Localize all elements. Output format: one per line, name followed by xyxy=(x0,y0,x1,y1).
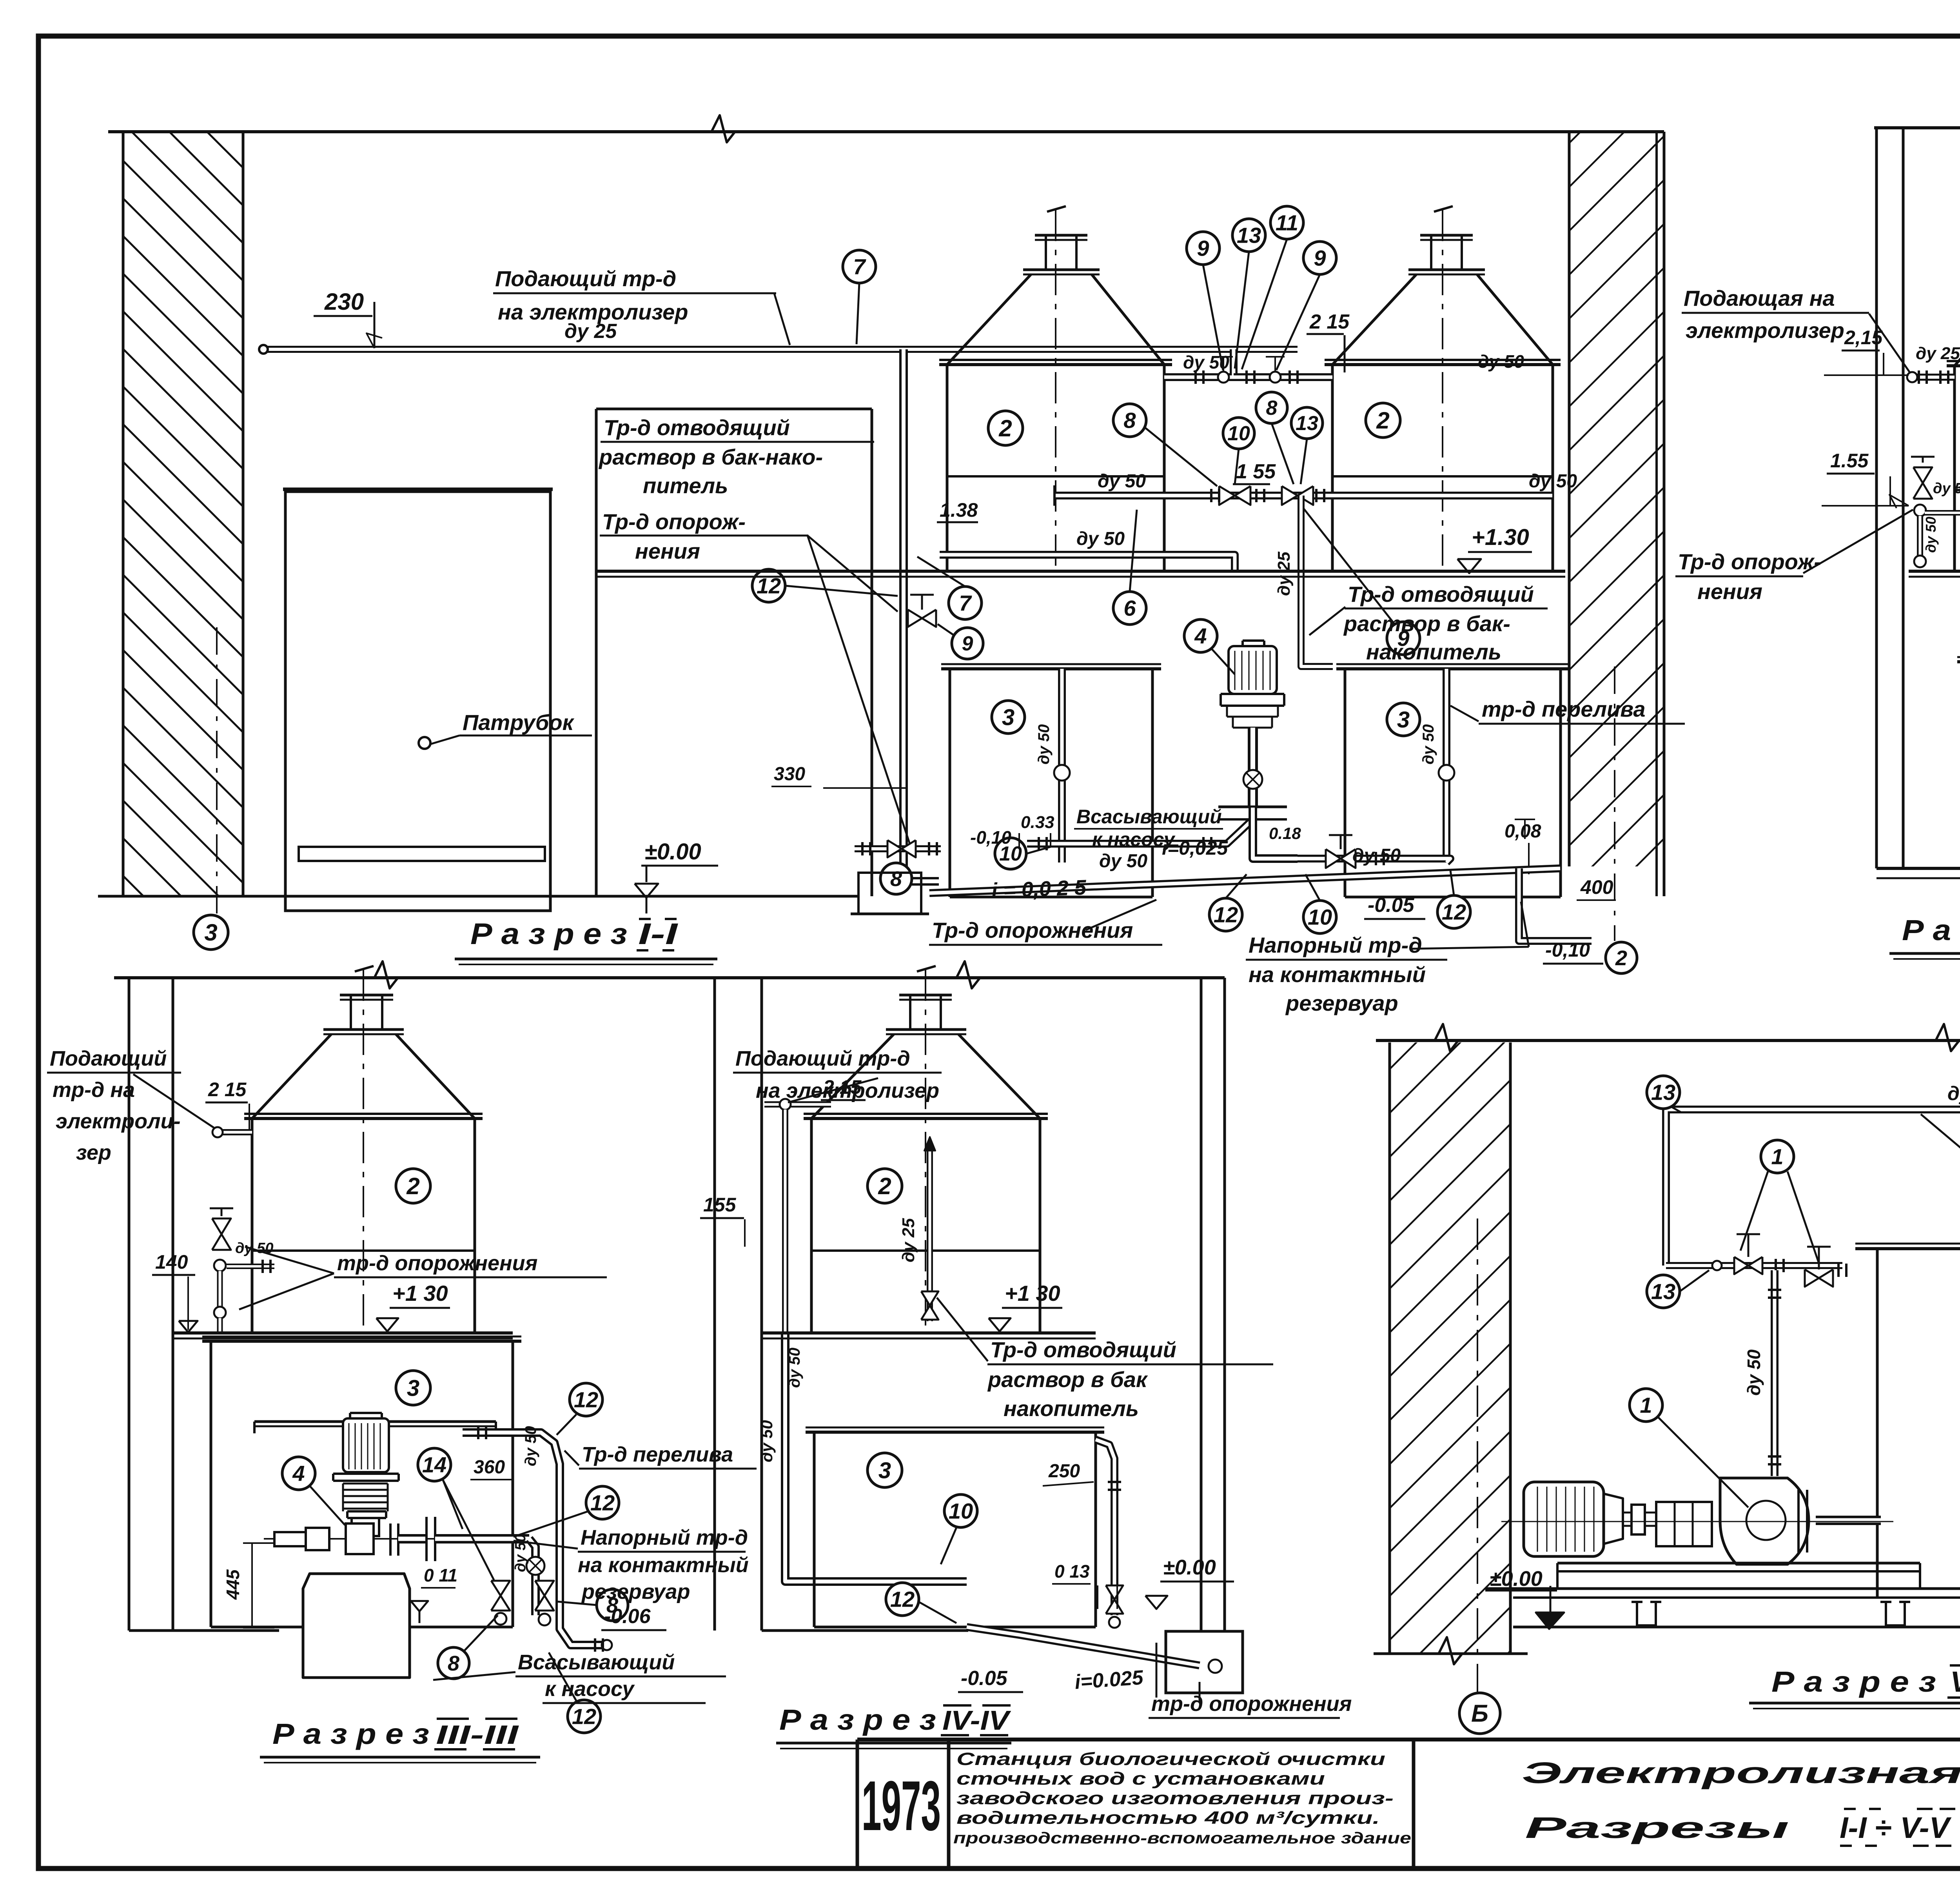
svg-text:ду 50: ду 50 xyxy=(1098,471,1146,492)
svg-text:0,08: 0,08 xyxy=(1504,821,1541,842)
svg-text:±0.00: ±0.00 xyxy=(644,839,701,864)
svg-text:Р а з р е з: Р а з р е з xyxy=(470,917,627,951)
svg-text:13: 13 xyxy=(1651,1080,1675,1105)
svg-text:12: 12 xyxy=(574,1387,598,1412)
svg-text:ду 50: ду 50 xyxy=(1183,352,1229,372)
svg-text:6: 6 xyxy=(1123,596,1136,621)
svg-text:4: 4 xyxy=(1194,624,1207,648)
svg-text:ду 50: ду 50 xyxy=(1744,1349,1764,1396)
svg-text:3: 3 xyxy=(204,919,217,946)
svg-text:электроли-: электроли- xyxy=(56,1109,181,1133)
svg-text:+1 30: +1 30 xyxy=(1005,1281,1060,1306)
svg-text:I-I: I-I xyxy=(638,917,679,951)
svg-text:12: 12 xyxy=(1214,902,1238,927)
svg-text:1973: 1973 xyxy=(862,1767,941,1845)
svg-text:9: 9 xyxy=(1314,246,1326,271)
svg-text:ду 50: ду 50 xyxy=(1933,480,1960,497)
svg-text:1 55: 1 55 xyxy=(1236,460,1276,483)
svg-text:-0,10: -0,10 xyxy=(970,827,1011,848)
svg-text:10: 10 xyxy=(949,1499,973,1523)
svg-text:на электролизер: на электролизер xyxy=(756,1079,939,1102)
svg-text:Всасывающий: Всасывающий xyxy=(518,1651,675,1674)
svg-text:8: 8 xyxy=(1123,408,1136,433)
svg-text:ду 25: ду 25 xyxy=(1916,344,1960,363)
svg-text:2: 2 xyxy=(998,415,1012,441)
svg-text:ду 25: ду 25 xyxy=(1274,552,1294,596)
svg-text:ду 50: ду 50 xyxy=(1923,517,1939,553)
svg-text:-0.06: -0.06 xyxy=(604,1605,651,1628)
svg-text:13: 13 xyxy=(1296,412,1318,435)
svg-text:-0.05: -0.05 xyxy=(1368,894,1415,917)
svg-text:накопитель: накопитель xyxy=(1004,1396,1139,1421)
svg-text:Подающая на: Подающая на xyxy=(1684,286,1835,311)
svg-text:8: 8 xyxy=(448,1652,459,1675)
svg-text:Тр-д опорож-: Тр-д опорож- xyxy=(1678,549,1821,574)
svg-text:Всасывающий: Всасывающий xyxy=(1076,806,1222,828)
svg-text:400: 400 xyxy=(1580,876,1613,898)
svg-text:ду 25: ду 25 xyxy=(1947,1082,1960,1104)
svg-text:Тр-д опорож-: Тр-д опорож- xyxy=(602,509,746,534)
svg-text:3: 3 xyxy=(407,1375,419,1401)
svg-text:155: 155 xyxy=(703,1194,737,1216)
svg-text:заводского изготовления произ-: заводского изготовления произ- xyxy=(956,1788,1394,1808)
svg-text:ду 50: ду 50 xyxy=(512,1534,529,1572)
svg-text:1.38: 1.38 xyxy=(940,499,978,521)
svg-text:Тр-д отводящий: Тр-д отводящий xyxy=(1348,582,1534,606)
svg-text:7: 7 xyxy=(959,591,972,616)
svg-text:тр-д опорожнения: тр-д опорожнения xyxy=(1151,1692,1352,1716)
svg-text:330: 330 xyxy=(774,764,805,784)
svg-text:Р а з р е з: Р а з р е з xyxy=(1902,914,1960,946)
svg-text:230: 230 xyxy=(324,289,364,315)
svg-text:Подающий: Подающий xyxy=(50,1047,167,1070)
svg-text:V-V: V-V xyxy=(1950,1665,1960,1698)
svg-text:2,15: 2,15 xyxy=(1844,327,1883,349)
svg-text:1: 1 xyxy=(1771,1144,1783,1169)
svg-text:0.33: 0.33 xyxy=(1021,813,1054,832)
svg-text:питель: питель xyxy=(643,473,728,498)
svg-text:2 15: 2 15 xyxy=(208,1079,247,1100)
svg-text:Тр-д отводящий: Тр-д отводящий xyxy=(990,1337,1176,1362)
svg-text:Р а з р е з: Р а з р е з xyxy=(779,1703,936,1736)
svg-text:i = 0,0 2 5: i = 0,0 2 5 xyxy=(991,876,1087,902)
svg-text:Р а з р е з: Р а з р е з xyxy=(272,1718,429,1750)
svg-text:ду 50: ду 50 xyxy=(1035,724,1053,764)
svg-text:i=0,025: i=0,025 xyxy=(1162,837,1228,859)
svg-text:0 13: 0 13 xyxy=(1054,1561,1090,1582)
svg-text:тр-д опорожнения: тр-д опорожнения xyxy=(337,1251,537,1275)
svg-text:12: 12 xyxy=(590,1491,615,1515)
svg-text:140: 140 xyxy=(155,1251,188,1273)
svg-text:Б: Б xyxy=(1471,1700,1488,1727)
svg-text:0.18: 0.18 xyxy=(1269,824,1301,843)
svg-text:-0.05: -0.05 xyxy=(961,1667,1008,1690)
svg-text:12: 12 xyxy=(1442,900,1466,924)
svg-text:Станция биологической очистки: Станция биологической очистки xyxy=(956,1749,1385,1769)
svg-text:2: 2 xyxy=(1376,407,1389,434)
svg-text:IV-IV: IV-IV xyxy=(942,1705,1011,1736)
svg-text:9: 9 xyxy=(962,632,973,655)
svg-text:раствор в бак-: раствор в бак- xyxy=(1343,611,1510,636)
svg-text:250: 250 xyxy=(1048,1461,1080,1482)
svg-text:водительностью 400 м³/сутки.: водительностью 400 м³/сутки. xyxy=(956,1808,1380,1828)
svg-text:0 11: 0 11 xyxy=(424,1565,457,1585)
svg-text:электролизер: электролизер xyxy=(1686,318,1844,343)
svg-text:445: 445 xyxy=(223,1569,243,1600)
svg-text:7: 7 xyxy=(853,254,866,279)
svg-text:9: 9 xyxy=(1197,236,1209,261)
svg-text:накопитель: накопитель xyxy=(1366,639,1501,664)
svg-text:Подающий тр-д: Подающий тр-д xyxy=(735,1047,910,1070)
svg-text:2: 2 xyxy=(406,1173,419,1199)
svg-text:8: 8 xyxy=(1266,397,1278,419)
svg-text:2: 2 xyxy=(1615,946,1627,970)
svg-text:тр-д на: тр-д на xyxy=(53,1078,135,1102)
svg-text:на контактный: на контактный xyxy=(578,1553,749,1577)
svg-text:Р а з р е з: Р а з р е з xyxy=(1771,1665,1936,1698)
svg-text:10: 10 xyxy=(1227,422,1250,445)
svg-text:360: 360 xyxy=(474,1457,505,1478)
svg-text:+1 30: +1 30 xyxy=(392,1281,448,1306)
svg-text:ду 50: ду 50 xyxy=(522,1426,539,1466)
svg-text:Разрезы: Разрезы xyxy=(1525,1811,1789,1845)
svg-text:ду 50: ду 50 xyxy=(786,1347,803,1388)
svg-text:нения: нения xyxy=(1697,579,1762,604)
svg-text:Тр-д перелива: Тр-д перелива xyxy=(582,1443,733,1466)
svg-text:13: 13 xyxy=(1651,1279,1675,1304)
svg-text:Тр-д опорожнения: Тр-д опорожнения xyxy=(932,918,1133,942)
svg-text:ду 25: ду 25 xyxy=(564,320,617,343)
svg-text:13: 13 xyxy=(1237,223,1261,248)
svg-text:Электролизная: Электролизная xyxy=(1522,1756,1960,1790)
svg-text:Напорный тр-д: Напорный тр-д xyxy=(1249,933,1422,957)
svg-text:12: 12 xyxy=(890,1587,915,1612)
svg-text:резервуар: резервуар xyxy=(1285,991,1398,1015)
svg-text:на контактный: на контактный xyxy=(1249,962,1426,987)
svg-text:раствор в бак: раствор в бак xyxy=(987,1367,1148,1392)
svg-text:ду 50: ду 50 xyxy=(1420,724,1437,764)
svg-text:3: 3 xyxy=(878,1458,891,1483)
svg-text:±0.00: ±0.00 xyxy=(1163,1556,1216,1579)
svg-text:ду 25: ду 25 xyxy=(899,1218,918,1262)
svg-text:i=0.025: i=0.025 xyxy=(1074,1666,1145,1694)
svg-text:4: 4 xyxy=(292,1461,305,1486)
svg-text:Подающий тр-д: Подающий тр-д xyxy=(495,266,676,291)
svg-text:2 15: 2 15 xyxy=(1309,311,1350,333)
svg-text:производственно-вспомогательно: производственно-вспомогательное здание xyxy=(953,1829,1411,1847)
svg-text:10: 10 xyxy=(1308,905,1332,930)
svg-text:12: 12 xyxy=(572,1704,596,1729)
svg-text:1.55: 1.55 xyxy=(1830,450,1869,472)
svg-text:3: 3 xyxy=(1397,707,1410,732)
svg-text:сточных вод с установками: сточных вод с установками xyxy=(956,1769,1325,1789)
svg-text:ду 50: ду 50 xyxy=(1076,528,1125,549)
svg-text:8: 8 xyxy=(890,867,902,891)
svg-text:резервуар: резервуар xyxy=(581,1580,690,1603)
svg-text:I-I ÷ V-V: I-I ÷ V-V xyxy=(1840,1811,1951,1845)
svg-text:к насосу: к насосу xyxy=(545,1677,635,1701)
svg-text:11: 11 xyxy=(1276,211,1298,235)
svg-text:зер: зер xyxy=(76,1141,111,1164)
svg-text:+1.30: +1.30 xyxy=(1472,525,1529,550)
svg-text:нения: нения xyxy=(635,539,700,563)
svg-text:ду 50: ду 50 xyxy=(757,1420,776,1462)
svg-text:тр-д перелива: тр-д перелива xyxy=(1482,697,1645,721)
svg-text:ду 50: ду 50 xyxy=(1478,351,1524,372)
svg-text:2: 2 xyxy=(878,1173,891,1199)
svg-text:III-III: III-III xyxy=(436,1720,519,1750)
svg-text:Напорный тр-д: Напорный тр-д xyxy=(581,1526,748,1549)
svg-text:ду 50: ду 50 xyxy=(1352,845,1401,866)
svg-text:1: 1 xyxy=(1640,1393,1652,1418)
svg-text:ду 50: ду 50 xyxy=(1099,851,1147,872)
svg-text:14: 14 xyxy=(422,1453,446,1477)
svg-text:раствор в бак-нако-: раствор в бак-нако- xyxy=(598,445,823,469)
svg-text:±0.00: ±0.00 xyxy=(1490,1567,1543,1591)
svg-text:3: 3 xyxy=(1002,705,1014,730)
svg-text:-0,10: -0,10 xyxy=(1545,939,1590,961)
svg-text:Тр-д отводящий: Тр-д отводящий xyxy=(604,415,790,440)
svg-text:Патрубок: Патрубок xyxy=(463,710,575,735)
